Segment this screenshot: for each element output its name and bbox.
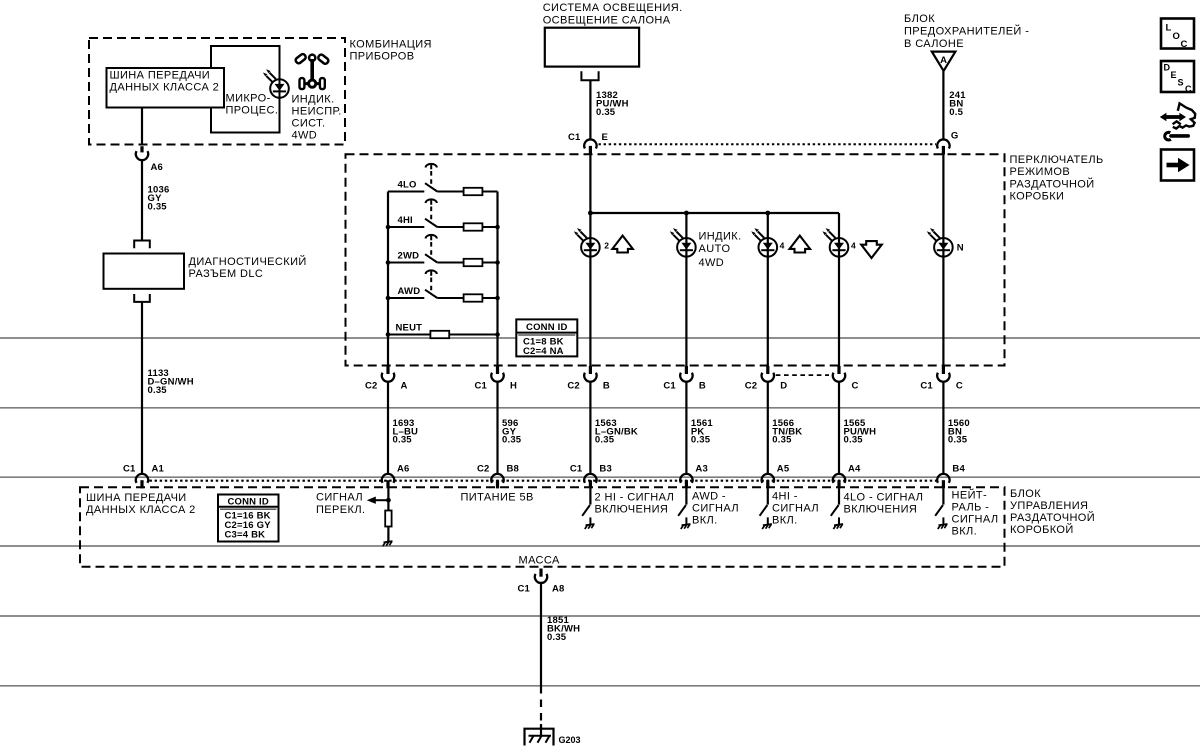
wire LED 4HI drop: [767, 213, 769, 366]
svg-text:AUTO: AUTO: [699, 243, 731, 255]
svg-text:СИГНАЛ: СИГНАЛ: [952, 514, 999, 526]
svg-text:КОМБИНАЦИЯ: КОМБИНАЦИЯ: [350, 39, 432, 51]
junction dot right bus 2WD: [495, 260, 500, 265]
svg-text:4HI -: 4HI -: [772, 491, 798, 503]
switch blade 4HI signal: [760, 505, 768, 516]
switch row 4LO wire right: [482, 191, 497, 193]
svg-text:ПРОЦЕС.: ПРОЦЕС.: [226, 105, 279, 117]
pin B4: [942, 480, 945, 488]
svg-text:УПРАВЛЕНИЯ: УПРАВЛЕНИЯ: [1010, 500, 1088, 512]
pin E: [589, 146, 592, 155]
junction dot left bus AWD: [386, 296, 391, 301]
svg-text:0.35: 0.35: [148, 202, 168, 213]
svg-text:ШИНА ПЕРЕДАЧИ: ШИНА ПЕРЕДАЧИ: [110, 70, 211, 82]
svg-text:A4: A4: [848, 464, 861, 475]
dotted connector line E to G: [599, 143, 937, 145]
switch 4HI blade: [425, 219, 437, 227]
svg-text:2 HI - СИГНАЛ: 2 HI - СИГНАЛ: [595, 492, 675, 504]
label C2 D: [745, 381, 788, 392]
svg-text:A6: A6: [151, 162, 164, 173]
pin A6: [140, 146, 143, 152]
svg-text:A1: A1: [152, 464, 165, 475]
connector C terminal: [937, 373, 949, 382]
wire label 1563 L-GN/BK 0.35: [595, 418, 638, 446]
svg-text:ДИАГНОСТИЧЕСКИЙ: ДИАГНОСТИЧЕСКИЙ: [189, 255, 307, 268]
wire 1566 to module: [767, 382, 769, 474]
label C2 B8: [477, 464, 519, 475]
LED indicator AUTO 4WD: [670, 228, 696, 257]
svg-text:B8: B8: [507, 464, 520, 475]
connector D terminal: [762, 373, 774, 382]
pin B8: [496, 480, 499, 488]
wire label 1036 GY 0.35: [148, 185, 170, 213]
svg-text:4: 4: [851, 241, 856, 251]
ground (4LO signal): [833, 517, 843, 529]
wire 4HI signal inside module: [767, 489, 769, 505]
connector A1 terminal: [136, 474, 148, 483]
svg-text:0.35: 0.35: [948, 435, 968, 446]
svg-text:ИНДИК.: ИНДИК.: [292, 94, 335, 106]
label module class 2 data bus: [86, 492, 196, 516]
pin D (switch box bottom): [766, 366, 769, 374]
svg-text:0.35: 0.35: [547, 632, 567, 643]
label 4WD indicator: [292, 94, 342, 142]
svg-text:C2: C2: [745, 381, 758, 392]
page rule line 3: [0, 476, 1200, 478]
svg-text:C2=4 NA: C2=4 NA: [523, 346, 564, 357]
indicator LED wire stub: [279, 80, 281, 98]
svg-text:A: A: [401, 381, 408, 392]
switch 4LO blade: [425, 183, 437, 191]
transfer case control module dashed box: [80, 487, 1005, 567]
svg-text:G: G: [951, 131, 959, 142]
wire fuse to connector G: [942, 71, 944, 139]
switch blade AWD signal: [678, 505, 686, 516]
wire neutral signal inside module: [942, 489, 944, 505]
wire lighting to connector E: [589, 80, 591, 139]
switch right bus wire: [496, 192, 498, 367]
svg-text:S: S: [1178, 78, 1184, 88]
svg-text:A5: A5: [777, 464, 790, 475]
label C1 H: [474, 381, 517, 392]
svg-text:B4: B4: [952, 464, 965, 475]
switch row AWD wire left: [388, 297, 424, 299]
label 4LO signal: [844, 492, 924, 516]
svg-text:РАЛЬ -: РАЛЬ -: [952, 502, 990, 514]
label C1 B: [663, 381, 706, 392]
svg-text:G203: G203: [559, 735, 581, 745]
lighting system box: [545, 28, 639, 67]
svg-text:C2: C2: [567, 381, 580, 392]
ground (AWD signal): [681, 517, 691, 529]
wire label 1566 TN/BK 0.35: [772, 418, 802, 446]
resistor 4HI: [464, 223, 483, 230]
pin C (switch box bottom): [942, 366, 945, 374]
svg-text:E: E: [602, 132, 609, 143]
wire label 241 BN 0.5: [949, 90, 966, 118]
svg-text:НЕИСПР.: НЕИСПР.: [292, 106, 342, 118]
resistor 4LO: [464, 188, 483, 195]
label switch signal: [316, 492, 365, 517]
label C2 B: [567, 381, 610, 392]
label C1 A8: [517, 584, 564, 595]
icon troubleshooting: [1160, 103, 1195, 140]
connector E terminal: [584, 139, 596, 148]
pin B3: [589, 480, 592, 488]
4WD malfunction indicator LED: [263, 69, 289, 98]
junction dot right bus NEUT: [495, 332, 500, 337]
svg-text:В САЛОНЕ: В САЛОНЕ: [904, 38, 964, 50]
switch AWD linkage T: [426, 270, 437, 275]
svg-text:N: N: [957, 243, 964, 254]
svg-text:4LO: 4LO: [398, 179, 417, 190]
LED indicator 2HI: [574, 228, 600, 257]
svg-text:0.35: 0.35: [596, 107, 616, 118]
ground (module internal): [383, 535, 393, 547]
svg-text:БЛОК: БЛОК: [904, 13, 935, 25]
connector B3 terminal: [584, 474, 596, 483]
pin G: [942, 146, 945, 155]
wire A6 inside module: [387, 489, 389, 511]
svg-text:C1: C1: [920, 381, 933, 392]
up arrow icon (4HI): [790, 236, 811, 253]
pin A4: [837, 480, 840, 488]
svg-text:C3=4 BK: C3=4 BK: [225, 530, 266, 541]
pin A3: [685, 480, 688, 488]
pin A (switch box bottom): [386, 366, 389, 374]
svg-text:A: A: [940, 55, 947, 66]
svg-text:4WD: 4WD: [699, 257, 725, 269]
svg-text:ИНДИК.: ИНДИК.: [699, 231, 742, 243]
ground (neutral signal): [938, 517, 948, 529]
svg-text:4WD: 4WD: [292, 130, 318, 142]
switch 4LO linkage dashes: [430, 171, 432, 186]
connector A4 terminal: [833, 474, 845, 483]
svg-text:0.35: 0.35: [393, 435, 413, 446]
dashed wire to G203: [540, 686, 542, 730]
svg-text:ВКЛ.: ВКЛ.: [952, 526, 978, 538]
switch 2WD linkage dashes: [430, 242, 432, 257]
svg-text:ДАННЫХ КЛАССА 2: ДАННЫХ КЛАССА 2: [110, 82, 220, 94]
svg-text:СИСТЕМА ОСВЕЩЕНИЯ.: СИСТЕМА ОСВЕЩЕНИЯ.: [543, 2, 683, 14]
page rule line 4: [0, 545, 1200, 547]
connector H terminal: [491, 373, 503, 382]
svg-text:2: 2: [604, 241, 609, 251]
wire 1563 to module: [589, 382, 591, 474]
switch 4LO linkage T: [426, 164, 437, 169]
junction dot right bus AWD: [495, 296, 500, 301]
switch blade 4LO signal: [831, 505, 839, 516]
svg-text:РАЗДАТОЧНОЙ: РАЗДАТОЧНОЙ: [1010, 511, 1095, 524]
svg-text:ПЕРКЛЮЧАТЕЛЬ: ПЕРКЛЮЧАТЕЛЬ: [1010, 154, 1104, 166]
wire 1561 to module: [685, 382, 687, 474]
svg-text:0.35: 0.35: [502, 435, 522, 446]
fuse A symbol: [932, 52, 956, 71]
switch row NEUT wire right: [449, 334, 498, 336]
label AUTO 4WD indicator: [699, 231, 742, 270]
junction dot signal: [386, 498, 391, 503]
ground G203: [525, 724, 554, 746]
resistor (pull-up): [385, 511, 391, 527]
svg-text:L: L: [1166, 23, 1172, 34]
switch 4HI linkage dashes: [430, 207, 432, 222]
DLC top connector staple: [134, 241, 150, 249]
svg-text:0.35: 0.35: [844, 435, 864, 446]
wire label 1693 L-BU 0.35: [393, 418, 419, 446]
DLC bottom connector staple: [134, 294, 150, 302]
microprocessor box U1: [211, 46, 280, 133]
lighting box connector staple: [581, 71, 598, 80]
label C1 E: [568, 132, 608, 143]
up arrow icon (2HI): [612, 236, 633, 253]
switch row 2WD wire left: [388, 262, 424, 264]
connector G terminal: [937, 139, 949, 148]
svg-text:0.35: 0.35: [691, 435, 711, 446]
svg-text:C1: C1: [570, 464, 583, 475]
svg-text:A6: A6: [397, 464, 410, 475]
switch row AWD wire right: [482, 297, 497, 299]
svg-text:ПРИБОРОВ: ПРИБОРОВ: [350, 51, 415, 63]
label AWD signal: [692, 491, 739, 527]
switch row 4LO wire middle: [437, 191, 463, 193]
switch left bus wire: [387, 192, 389, 367]
svg-text:0.35: 0.35: [148, 385, 168, 396]
svg-text:AWD: AWD: [398, 286, 421, 297]
connector B8 terminal: [491, 474, 503, 483]
svg-text:C1: C1: [663, 381, 676, 392]
svg-text:НЕЙТ-: НЕЙТ-: [952, 489, 988, 502]
wire A6 to DLC: [141, 160, 143, 240]
wire 596 to module: [496, 382, 498, 474]
svg-text:C: C: [1181, 39, 1188, 50]
svg-text:C1: C1: [568, 132, 581, 143]
switch row 4LO wire left: [388, 191, 424, 193]
svg-text:C: C: [1185, 84, 1192, 94]
svg-text:AWD -: AWD -: [692, 491, 726, 503]
module dotted connector line: [150, 480, 938, 482]
4WD drivetrain icon: [295, 53, 330, 89]
svg-text:ВКЛЮЧЕНИЯ: ВКЛЮЧЕНИЯ: [844, 504, 918, 516]
svg-text:D: D: [1164, 63, 1171, 73]
svg-text:БЛОК: БЛОК: [1010, 488, 1041, 500]
svg-text:C1: C1: [474, 381, 487, 392]
svg-text:ДАННЫХ КЛАССА 2: ДАННЫХ КЛАССА 2: [86, 504, 196, 516]
connector B terminal: [584, 373, 596, 382]
svg-text:РАЗЪЕМ DLC: РАЗЪЕМ DLC: [189, 268, 264, 280]
svg-text:4HI: 4HI: [398, 215, 413, 226]
svg-text:B: B: [603, 381, 610, 392]
svg-text:CONN ID: CONN ID: [227, 496, 269, 507]
svg-text:C: C: [852, 381, 859, 392]
svg-text:РЕЖИМОВ: РЕЖИМОВ: [1010, 166, 1071, 178]
page rule line 1: [0, 337, 1200, 339]
LED indicator N: [927, 228, 953, 257]
switch row AWD wire middle: [437, 297, 463, 299]
svg-text:B3: B3: [599, 464, 612, 475]
svg-text:КОРОБКИ: КОРОБКИ: [1010, 191, 1065, 203]
svg-text:NEUT: NEUT: [396, 322, 423, 333]
switch 2WD linkage T: [426, 235, 437, 240]
label C1 A1: [123, 464, 165, 475]
svg-text:E: E: [1171, 70, 1177, 80]
wire E to LED2HI to connector B: [589, 155, 591, 367]
connector A5 terminal: [762, 474, 774, 483]
label transfer case switch: [1010, 154, 1104, 203]
switch 2WD blade: [425, 254, 437, 262]
pin A6: [386, 480, 389, 488]
switch row NEUT wire left: [388, 334, 431, 336]
svg-text:ВКЛ.: ВКЛ.: [692, 515, 718, 527]
label 2HI signal: [595, 492, 675, 516]
svg-text:СИГНАЛ: СИГНАЛ: [692, 503, 739, 515]
connector B terminal: [680, 373, 692, 382]
label 4HI signal: [772, 491, 819, 527]
switch blade 2HI signal: [582, 505, 590, 516]
switch row 4HI wire middle: [437, 226, 463, 228]
junction dot LED bus at AUTO: [684, 211, 689, 216]
resistor 2WD: [464, 259, 483, 266]
pin B (switch box bottom): [589, 366, 592, 374]
connector B4 terminal: [937, 474, 949, 483]
svg-text:ОСВЕЩЕНИЕ САЛОНА: ОСВЕЩЕНИЕ САЛОНА: [543, 15, 671, 27]
junction dot LED bus at 2HI: [588, 211, 593, 216]
wire label 596 GY 0.35: [502, 418, 522, 446]
pin A1: [140, 480, 143, 488]
svg-text:C: C: [956, 381, 963, 392]
junction dot left bus NEUT: [386, 332, 391, 337]
transfer case switch dashed box: [346, 154, 1005, 365]
wire cluster to connector A6: [141, 108, 143, 145]
switch 4HI linkage T: [426, 199, 437, 204]
icon LOC: [1161, 19, 1194, 51]
down arrow icon (4LO): [861, 241, 882, 258]
page rule line 2: [0, 407, 1200, 409]
label neutral signal: [952, 489, 999, 538]
switch AWD linkage dashes: [430, 278, 432, 293]
label control module: [1010, 488, 1095, 536]
svg-text:2WD: 2WD: [398, 250, 420, 261]
lighting system label: [543, 2, 683, 27]
svg-text:0.35: 0.35: [595, 435, 615, 446]
label C2 A: [365, 381, 408, 392]
svg-text:B: B: [699, 381, 706, 392]
switch row 4HI wire left: [388, 226, 424, 228]
svg-text:4LO - СИГНАЛ: 4LO - СИГНАЛ: [844, 492, 924, 504]
svg-text:4: 4: [780, 241, 785, 251]
wire resistor to ground: [387, 527, 389, 542]
svg-text:H: H: [510, 381, 517, 392]
wire 1693 to module: [387, 382, 389, 474]
svg-text:СИСТ.: СИСТ.: [292, 118, 326, 130]
connector A6 terminal: [382, 474, 394, 483]
svg-text:0.5: 0.5: [949, 107, 963, 118]
label C1 B3: [570, 464, 612, 475]
switch row 4HI wire right: [482, 226, 497, 228]
instrument cluster dashed box: [89, 38, 345, 145]
svg-text:C1: C1: [517, 584, 530, 595]
pin H (switch box bottom): [496, 366, 499, 374]
svg-text:ПИТАНИЕ 5В: ПИТАНИЕ 5В: [461, 492, 534, 504]
pin A5: [766, 480, 769, 488]
wire label 1565 PU/WH 0.35: [844, 418, 877, 446]
junction dot left bus 2WD: [386, 260, 391, 265]
svg-text:ШИНА ПЕРЕДАЧИ: ШИНА ПЕРЕДАЧИ: [86, 492, 187, 504]
svg-text:A3: A3: [695, 464, 708, 475]
svg-text:A8: A8: [552, 584, 565, 595]
switch AWD blade: [425, 290, 437, 298]
wire 2HI signal inside module: [589, 489, 591, 505]
svg-text:ПРЕДОХРАНИТЕЛЕЙ -: ПРЕДОХРАНИТЕЛЕЙ -: [904, 25, 1029, 38]
wire label 1561 PK 0.35: [691, 418, 713, 446]
diagnostic connector DLC box: [104, 254, 307, 289]
wire G to LED N to connector C: [942, 155, 944, 367]
ground (4HI signal): [762, 517, 772, 529]
class 2 data bus box: [107, 68, 225, 108]
connector C terminal: [833, 373, 845, 382]
svg-text:СИГНАЛ: СИГНАЛ: [316, 492, 363, 504]
signal arrow: [367, 497, 389, 504]
pin A8: [539, 569, 542, 577]
icon DESC: [1161, 61, 1194, 94]
CONN ID table (switch): [516, 319, 577, 357]
label C1 C: [920, 381, 963, 392]
svg-text:МАССА: МАССА: [519, 555, 561, 567]
ground (2HI signal): [585, 517, 595, 529]
resistor NEUT: [430, 331, 449, 338]
LED indicator 4HI: [751, 228, 777, 257]
connector A6 terminal: [136, 151, 148, 160]
svg-text:C1: C1: [123, 464, 136, 475]
svg-text:РАЗДАТОЧНОЙ: РАЗДАТОЧНОЙ: [1010, 177, 1095, 190]
dashed connector link D to C: [776, 374, 829, 376]
junction dot left bus 4HI: [386, 225, 391, 230]
switch blade neutral signal: [935, 505, 943, 516]
resistor AWD: [464, 294, 483, 301]
wire DLC to module A1: [141, 302, 143, 474]
page rule line 5: [0, 615, 1200, 617]
icon arrow: [1161, 150, 1194, 181]
svg-text:СИГНАЛ: СИГНАЛ: [772, 503, 819, 515]
junction dot LED bus at 4HI: [765, 211, 770, 216]
svg-text:КОРОБКОЙ: КОРОБКОЙ: [1010, 523, 1074, 536]
page rule line 6: [0, 685, 1200, 687]
svg-text:D: D: [780, 381, 787, 392]
wire A8 to ground: [540, 583, 542, 686]
wire AWD signal inside module: [685, 489, 687, 505]
wire label 1382 PU/WH 0.35: [596, 90, 629, 118]
switch row 2WD wire right: [482, 262, 497, 264]
svg-text:МИКРО-: МИКРО-: [226, 93, 271, 105]
wire LED AUTO drop: [685, 213, 687, 366]
fuse block label: [904, 13, 1029, 50]
pin C (switch box bottom): [837, 366, 840, 374]
wire 4LO signal inside module: [838, 489, 840, 505]
svg-text:ВКЛ.: ВКЛ.: [772, 515, 798, 527]
wire LED 4LO drop: [838, 213, 840, 366]
CONN ID table (module): [218, 495, 279, 542]
wire label 1851 BK/WH 0.35: [547, 615, 580, 643]
connector A3 terminal: [680, 474, 692, 483]
wire label 1560 BN 0.35: [948, 418, 970, 446]
svg-text:CONN ID: CONN ID: [526, 322, 568, 333]
svg-text:ВКЛЮЧЕНИЯ: ВКЛЮЧЕНИЯ: [595, 504, 669, 516]
LED bus wire: [590, 212, 839, 214]
svg-text:ПЕРЕКЛ.: ПЕРЕКЛ.: [316, 504, 365, 516]
svg-text:C2: C2: [477, 464, 490, 475]
wire 1560 to module: [942, 382, 944, 474]
wire 1565 to module: [838, 382, 840, 474]
wire label 1133 D-GN/WH 0.35: [148, 368, 194, 396]
